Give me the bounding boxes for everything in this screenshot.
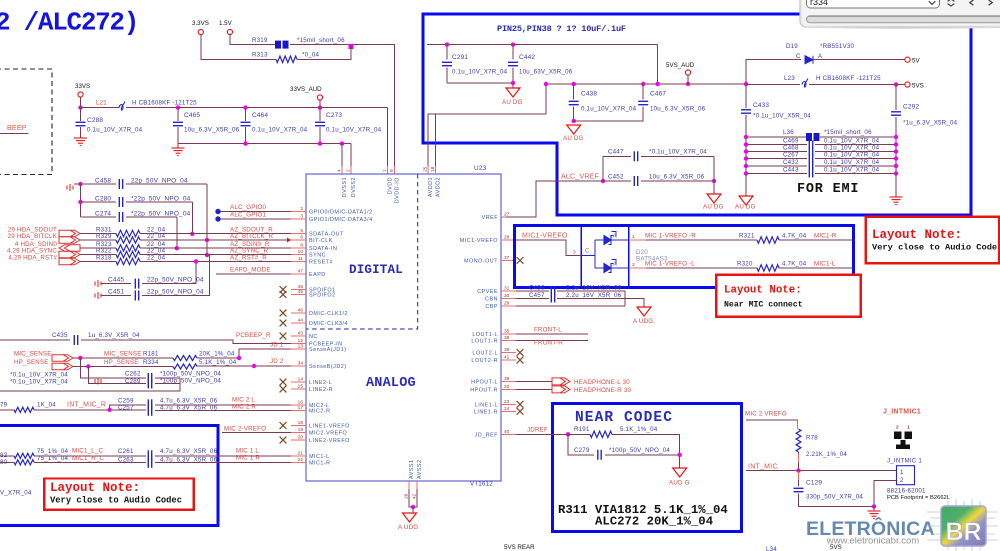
svg-text:32: 32 bbox=[504, 384, 510, 390]
find bar search input r334 bbox=[807, 0, 940, 8]
svg-text:L36: L36 bbox=[783, 129, 794, 136]
svg-text:AVSS2: AVSS2 bbox=[417, 460, 423, 479]
svg-text:C262: C262 bbox=[125, 371, 141, 378]
svg-text:1: 1 bbox=[382, 169, 388, 172]
svg-text:37: 37 bbox=[504, 255, 510, 261]
svg-text:*0.1u_10V_X7R_04: *0.1u_10V_X7R_04 bbox=[10, 372, 68, 379]
no-connect X pin 46 bbox=[280, 310, 287, 317]
junction a2 bbox=[205, 253, 209, 257]
wire R331 to codec bbox=[140, 233, 291, 235]
svg-text:MIC1-R: MIC1-R bbox=[814, 233, 837, 240]
svg-text:3: 3 bbox=[300, 214, 303, 220]
wire C467 to gnd bbox=[574, 107, 644, 122]
svg-text:3: 3 bbox=[573, 250, 576, 256]
svg-text:NEAR CODEC: NEAR CODEC bbox=[575, 410, 673, 426]
svg-text:Near MIC connect: Near MIC connect bbox=[724, 301, 803, 310]
wire 5VS_AUD stub bbox=[687, 75, 689, 84]
svg-text:U23: U23 bbox=[474, 165, 487, 172]
junction 5VS bus bbox=[894, 82, 898, 86]
svg-text:HEADPHONE-L 30: HEADPHONE-L 30 bbox=[574, 379, 630, 386]
wire EAPD_MODE bbox=[216, 273, 291, 275]
svg-text:C458: C458 bbox=[95, 178, 111, 185]
power terminal 33VS bbox=[78, 92, 83, 97]
connector arrow HDA_SDOUT bbox=[59, 230, 80, 237]
wire 1.5V to R319 bbox=[230, 35, 275, 45]
wire to C442 bbox=[512, 45, 514, 60]
resistor R78 bbox=[796, 429, 801, 452]
svg-text:21: 21 bbox=[298, 450, 304, 456]
svg-text:40: 40 bbox=[504, 429, 510, 435]
wire to C464 bbox=[245, 108, 247, 121]
wire to A UDG bbox=[625, 299, 644, 308]
capacitor C259 bbox=[148, 399, 151, 410]
svg-text:LOUT1-R: LOUT1-R bbox=[471, 339, 498, 345]
pin stub AVDD2 bbox=[435, 166, 437, 174]
svg-text:R78: R78 bbox=[806, 435, 818, 442]
svg-text:0.1u_10V_X7R_04: 0.1u_10V_X7R_04 bbox=[824, 145, 880, 152]
capacitor C445 bbox=[135, 279, 138, 289]
junction b1 bbox=[190, 232, 194, 236]
svg-text:AU DG: AU DG bbox=[703, 204, 724, 211]
svg-text:MONO-OUT: MONO-OUT bbox=[464, 258, 498, 264]
capacitor C435 bbox=[74, 335, 77, 345]
svg-text:36: 36 bbox=[504, 335, 510, 341]
svg-text:75_1%_04: 75_1%_04 bbox=[37, 448, 69, 455]
svg-text:C129: C129 bbox=[806, 480, 822, 487]
pin 32 HPOUT-R bbox=[501, 388, 516, 390]
wire R329 to codec bbox=[140, 239, 291, 241]
svg-text:SenseA(JD1): SenseA(JD1) bbox=[309, 347, 347, 353]
ground AU DG (C438) bbox=[567, 125, 581, 134]
svg-text:C435: C435 bbox=[52, 332, 68, 339]
wire AVSS to ground bbox=[412, 507, 414, 513]
svg-text:MIC 1-VREFO -L: MIC 1-VREFO -L bbox=[645, 261, 695, 268]
svg-text:5V: 5V bbox=[912, 58, 920, 65]
svg-text:MIC 1-VREFO -R: MIC 1-VREFO -R bbox=[645, 233, 696, 240]
svg-text:V_X7R_04: V_X7R_04 bbox=[0, 490, 32, 497]
resistor R320 bbox=[757, 265, 779, 271]
wire D20 common bbox=[581, 254, 595, 256]
wire MIC1-VREFO-L bbox=[646, 267, 757, 269]
svg-text:C445: C445 bbox=[108, 277, 124, 284]
svg-text:AZ_SYNC_R: AZ_SYNC_R bbox=[230, 247, 269, 254]
svg-text:AVSS1: AVSS1 bbox=[409, 460, 415, 479]
wire INT_MIC left bbox=[0, 409, 14, 411]
junction C279 bbox=[678, 453, 682, 457]
svg-text:1: 1 bbox=[900, 469, 904, 476]
svg-text:8: 8 bbox=[300, 243, 303, 249]
svg-text:*0.1u_10V_X5R_04: *0.1u_10V_X5R_04 bbox=[753, 113, 811, 120]
svg-text:C279: C279 bbox=[574, 447, 590, 454]
svg-text:30: 30 bbox=[504, 293, 510, 299]
svg-text:0.1u_10V_X7R_04: 0.1u_10V_X7R_04 bbox=[581, 106, 637, 113]
no-connect X pin 44 bbox=[280, 320, 287, 327]
junction SenseA bbox=[237, 356, 241, 360]
svg-text:FRONT-L: FRONT-L bbox=[534, 327, 562, 334]
wire HP_SENSE bbox=[73, 366, 173, 368]
svg-text:*22p_50V_NPO_04: *22p_50V_NPO_04 bbox=[131, 196, 191, 203]
svg-text:22: 22 bbox=[298, 457, 304, 463]
svg-text:10u_6.3V_X5R_06: 10u_6.3V_X5R_06 bbox=[184, 127, 240, 134]
svg-text:SDATA-OUT: SDATA-OUT bbox=[309, 232, 344, 238]
svg-text:AUD G: AUD G bbox=[669, 480, 690, 487]
diode D20 upper bbox=[595, 235, 629, 245]
wire C456 right bbox=[557, 290, 625, 292]
svg-text:AU DG: AU DG bbox=[563, 135, 584, 142]
capacitor C274 bbox=[119, 212, 122, 222]
svg-text:DVSS1: DVSS1 bbox=[342, 177, 348, 197]
power terminal 3.3VS bbox=[198, 29, 203, 34]
svg-text:SPDIFO2: SPDIFO2 bbox=[309, 293, 336, 299]
svg-text:ALC272 20K_1%_04: ALC272 20K_1%_04 bbox=[595, 515, 714, 529]
wire 33VS down bbox=[80, 97, 82, 108]
wire C279 right bbox=[605, 454, 680, 456]
power terminal 5VS_AUD bbox=[685, 70, 690, 75]
wire DVSS ground rail bbox=[178, 143, 351, 145]
svg-text:JD_REF: JD_REF bbox=[475, 432, 499, 438]
layout note box middle bbox=[716, 275, 860, 317]
connector arrow HEADPHONE-R bbox=[516, 388, 552, 390]
svg-text:A: A bbox=[818, 53, 823, 60]
highlight box NEAR CODEC bbox=[552, 404, 741, 532]
junction C467 bbox=[641, 82, 645, 86]
pin 23 LINE1-L bbox=[501, 403, 516, 405]
connector J_INTMIC1 body bbox=[897, 466, 915, 485]
svg-text:GPIO1/DMIC-DATA3/4: GPIO1/DMIC-DATA3/4 bbox=[309, 217, 373, 223]
power terminal 1.5V bbox=[227, 29, 232, 34]
dashed box BEEP area bbox=[0, 69, 52, 175]
svg-text:*100p_50V_NPO_04: *100p_50V_NPO_04 bbox=[160, 371, 221, 378]
resistor R380 bbox=[14, 460, 34, 465]
region border (thick blue staircase box) bbox=[423, 14, 971, 215]
wire to C129 bbox=[798, 471, 800, 487]
svg-text:HP_SENSE: HP_SENSE bbox=[14, 359, 49, 366]
capacitor C432 row bbox=[746, 165, 807, 167]
svg-text:MIC1-R: MIC1-R bbox=[309, 460, 331, 466]
svg-text:5VS: 5VS bbox=[830, 544, 842, 551]
svg-text:*15mil_short_06: *15mil_short_06 bbox=[824, 129, 872, 136]
svg-text:LINE1-VREFO: LINE1-VREFO bbox=[309, 424, 350, 430]
wire C458 right bbox=[126, 183, 207, 185]
pin stub D20 2 bbox=[629, 267, 646, 269]
pin 43 NC bbox=[291, 335, 306, 337]
svg-text:R181: R181 bbox=[143, 351, 159, 358]
wire D20 join bbox=[594, 240, 596, 268]
junction C438 bbox=[572, 82, 576, 86]
no-connect X pin 41 bbox=[517, 357, 524, 364]
svg-text:MIC_SENSE: MIC_SENSE bbox=[104, 351, 142, 358]
svg-text:LINE2-L: LINE2-L bbox=[309, 380, 332, 386]
wire right bus to ground bbox=[895, 174, 897, 198]
svg-text:VREF: VREF bbox=[482, 215, 499, 221]
junction J_INTMIC gnd bbox=[872, 504, 876, 508]
svg-text:r334: r334 bbox=[810, 0, 828, 7]
svg-text:0.1u_10V_X7R_04: 0.1u_10V_X7R_04 bbox=[326, 127, 382, 134]
wire gnd stub bbox=[873, 507, 875, 512]
junction EMI left bus top bbox=[744, 82, 748, 86]
wire C291 down bbox=[446, 68, 448, 84]
power terminal 5VS bbox=[905, 82, 910, 87]
pin stub AVSS1 bbox=[408, 481, 410, 489]
junction AVDD tap bbox=[544, 82, 548, 86]
wire MIC1-VREFO-R bbox=[646, 239, 757, 241]
capacitor C263 bbox=[148, 457, 151, 468]
wire to C467 bbox=[642, 84, 644, 100]
pin 24 LINE1-R bbox=[501, 410, 516, 412]
svg-text:PCBEEP_R: PCBEEP_R bbox=[236, 332, 271, 339]
capacitor C447 bbox=[634, 151, 637, 161]
svg-text:L34: L34 bbox=[766, 546, 777, 551]
junction a1 bbox=[205, 238, 209, 242]
svg-text:R334: R334 bbox=[143, 359, 159, 366]
wire PCBEEP_R bbox=[81, 340, 291, 344]
pin 48 SPDIFO1 bbox=[291, 289, 306, 291]
wire C447/C452 join bbox=[713, 156, 715, 181]
junction 5VS_AUD bbox=[686, 82, 690, 86]
wire to C438 bbox=[573, 84, 575, 100]
ferrite bead L36 row bbox=[746, 136, 806, 138]
svg-text:RESET#: RESET# bbox=[309, 260, 333, 266]
svg-text:MIC 2 L: MIC 2 L bbox=[232, 397, 255, 404]
capacitor C443 row bbox=[746, 173, 807, 175]
wire R331 row bbox=[80, 233, 116, 235]
svg-text:12: 12 bbox=[298, 338, 304, 344]
svg-text:LINE1-R: LINE1-R bbox=[474, 409, 498, 415]
wire 33VS to L21 bbox=[81, 107, 120, 109]
wire to C273 bbox=[319, 108, 321, 121]
svg-text:AU DG: AU DG bbox=[502, 99, 523, 106]
pin 8 SDATA-IN bbox=[291, 247, 306, 249]
wire MIC2-VREFO to pin bbox=[262, 431, 291, 433]
wire INT_MIC_R bbox=[34, 409, 146, 411]
svg-text:47: 47 bbox=[298, 269, 304, 275]
svg-text:29 HDA_BITCLK: 29 HDA_BITCLK bbox=[8, 233, 58, 240]
junction MIC_SENSE bbox=[78, 356, 82, 360]
wire MIC2 VREFO label bbox=[746, 419, 798, 421]
svg-text:*100p_50V_NPO_04: *100p_50V_NPO_04 bbox=[609, 447, 670, 454]
no-connect X pin 39 bbox=[517, 349, 524, 356]
pin stub DVDD bbox=[387, 166, 389, 174]
wire C452 right bbox=[641, 180, 714, 182]
svg-text:C292: C292 bbox=[903, 104, 919, 111]
svg-text:0.1u_10V_X7R_04: 0.1u_10V_X7R_04 bbox=[824, 138, 880, 145]
red lead C129 bbox=[798, 472, 800, 481]
resistor R382 bbox=[14, 453, 34, 458]
svg-text:L21: L21 bbox=[96, 100, 107, 107]
svg-text:DVDD: DVDD bbox=[388, 177, 394, 194]
ferrite bead R319 bbox=[275, 41, 289, 49]
ac symbol near C451 bbox=[95, 292, 101, 299]
svg-text:A: A bbox=[613, 233, 618, 240]
svg-text:4.7K_04: 4.7K_04 bbox=[782, 261, 807, 268]
svg-text:*0_04: *0_04 bbox=[302, 52, 320, 59]
wire 33VS_AUD rail bbox=[126, 107, 388, 109]
svg-text:AZ_RST#_R: AZ_RST#_R bbox=[230, 254, 267, 261]
svg-text:MIC 1 L: MIC 1 L bbox=[236, 448, 259, 455]
wire MIC_SENSE bbox=[73, 357, 173, 359]
wire to AU DG bbox=[713, 181, 715, 194]
svg-text:C456: C456 bbox=[529, 285, 545, 292]
svg-text:C432: C432 bbox=[783, 159, 799, 166]
junction 33VS bbox=[78, 105, 82, 109]
wire top rail down bbox=[657, 45, 659, 84]
svg-text:4.7u_6.3V_X5R_06: 4.7u_6.3V_X5R_06 bbox=[160, 398, 218, 405]
wire CBN bbox=[516, 298, 549, 300]
svg-text:C452: C452 bbox=[608, 174, 624, 181]
svg-text:INT_MIC: INT_MIC bbox=[748, 463, 778, 470]
svg-text:C274: C274 bbox=[95, 211, 111, 218]
svg-text:11: 11 bbox=[298, 256, 303, 262]
wire MIC1-L to pin bbox=[155, 455, 291, 457]
wire MIC1_R left bbox=[0, 461, 14, 463]
svg-text:LOUT2-L: LOUT2-L bbox=[472, 351, 498, 357]
wire L36 right bbox=[820, 136, 896, 138]
svg-text:330p_50V_X7R_04: 330p_50V_X7R_04 bbox=[806, 494, 863, 501]
wire MIC1_R_C bbox=[34, 461, 146, 463]
capacitor C257 bbox=[148, 405, 151, 416]
pin 28 MIC1-VREFO bbox=[501, 239, 516, 241]
junction C452 bbox=[712, 179, 716, 183]
wire C438 down bbox=[573, 107, 575, 122]
capacitor C468 row bbox=[746, 151, 807, 153]
no-connect X pin 24 bbox=[517, 408, 524, 415]
wire to MIC1-R bbox=[779, 239, 853, 241]
ground earth (J_INTMIC) bbox=[868, 511, 881, 519]
wire to 5VS terminal bbox=[896, 84, 905, 86]
blue dot ALC_GPIO1 bbox=[215, 216, 220, 221]
no-connect X pin 23 bbox=[517, 401, 524, 408]
svg-text:20K_1%_04: 20K_1%_04 bbox=[199, 351, 235, 358]
svg-text:DMIC-CLK1/2: DMIC-CLK1/2 bbox=[309, 311, 348, 317]
svg-text:2: 2 bbox=[300, 206, 303, 212]
pin 47 EAPD bbox=[291, 273, 306, 275]
pin stub AVDD1 bbox=[427, 166, 429, 174]
pin stub D20 1 bbox=[629, 239, 646, 241]
wire right bus upper bbox=[895, 85, 897, 111]
capacitor C457 bbox=[551, 295, 554, 303]
svg-text:FRONT-R: FRONT-R bbox=[534, 340, 563, 347]
svg-text:R191: R191 bbox=[574, 426, 590, 433]
logo BR chip icon bbox=[927, 499, 998, 551]
svg-text:SDATA-IN: SDATA-IN bbox=[309, 246, 337, 252]
svg-text:2 /ALC272): 2 /ALC272) bbox=[0, 8, 138, 38]
pin 29 CBP bbox=[501, 305, 516, 307]
wire 5VS_AUD to D19 bbox=[746, 60, 801, 84]
junction C458 bbox=[78, 182, 82, 186]
wire DVDD-IO bbox=[394, 45, 396, 166]
svg-text:DVDD-IO: DVDD-IO bbox=[395, 177, 401, 203]
svg-text:0.1u_10V_X7R_04: 0.1u_10V_X7R_04 bbox=[87, 127, 143, 134]
wire R78 down bbox=[798, 452, 800, 471]
svg-text:C438: C438 bbox=[581, 91, 597, 98]
svg-text:5VS_AUD: 5VS_AUD bbox=[666, 62, 695, 69]
svg-text:44: 44 bbox=[298, 318, 304, 324]
pin 35 LOUT1-L bbox=[501, 333, 516, 335]
wire caps join bbox=[624, 291, 626, 306]
junction C438 gnd bbox=[572, 119, 576, 123]
svg-text:14: 14 bbox=[298, 377, 304, 383]
wire R319 to DVDD net bbox=[290, 45, 395, 107]
pin 31 CPVEE bbox=[501, 290, 516, 292]
wire left bus to ground bbox=[745, 174, 747, 197]
svg-text:2.21K_1%_04: 2.21K_1%_04 bbox=[806, 451, 847, 458]
junction AVSS bbox=[411, 505, 415, 509]
svg-text:Layout Note:: Layout Note: bbox=[872, 228, 962, 242]
wire C435 left bbox=[0, 339, 70, 341]
svg-text:16: 16 bbox=[298, 399, 304, 405]
wire sense caps return bbox=[0, 378, 180, 391]
svg-text:VT1612: VT1612 bbox=[470, 481, 493, 488]
pin 3 GPIO1/DMIC-DATA3/4 bbox=[291, 218, 306, 220]
wire to J_INTMIC pin2 bbox=[874, 481, 897, 507]
pin stub DVDD-IO bbox=[394, 166, 396, 174]
svg-text:41: 41 bbox=[504, 355, 510, 361]
connector arrow HDA_BITCLK bbox=[59, 237, 80, 244]
svg-text:MIC 2-VREFO: MIC 2-VREFO bbox=[224, 426, 266, 433]
svg-text:1K_04: 1K_04 bbox=[37, 402, 56, 409]
wire C457 right bbox=[557, 298, 625, 300]
svg-text:C: C bbox=[796, 53, 801, 60]
svg-text:79: 79 bbox=[0, 402, 8, 409]
wire ALC_GPIO0 bbox=[220, 211, 291, 213]
wire 5VS_AUD rail bbox=[546, 83, 746, 85]
pin 38 HPOUT-L bbox=[501, 380, 516, 382]
wire 33VS_AUD stub bbox=[319, 100, 321, 108]
pin 6 BIT-CLK bbox=[291, 239, 306, 241]
svg-text:ALC_GPIO0: ALC_GPIO0 bbox=[230, 204, 267, 211]
wire to SenseB bbox=[197, 365, 291, 367]
svg-text:ALC_VREF: ALC_VREF bbox=[561, 174, 599, 181]
svg-text:5.1K_1%_04: 5.1K_1%_04 bbox=[199, 359, 237, 366]
highlight box MIC1-VREFO bbox=[515, 225, 854, 287]
pin 40 JD_REF bbox=[501, 433, 516, 435]
svg-text:GPIO0/DMIC-DATA1/2: GPIO0/DMIC-DATA1/2 bbox=[309, 210, 373, 216]
wire vert b bbox=[191, 202, 193, 234]
capacitor C458 bbox=[119, 179, 122, 189]
wire MIC2-VREFO label bbox=[222, 431, 262, 433]
power terminal 5V bbox=[905, 57, 910, 62]
junction L36 right bbox=[894, 135, 898, 139]
svg-text:C442: C442 bbox=[519, 54, 535, 61]
wire D19 to 5V bbox=[813, 59, 905, 61]
pin 20 LINE2-VREFO bbox=[291, 439, 306, 441]
svg-text:5VS: 5VS bbox=[912, 83, 924, 90]
capacitor C451 bbox=[135, 291, 138, 301]
svg-text:AVDD2: AVDD2 bbox=[436, 177, 442, 197]
svg-text:BIT-CLK: BIT-CLK bbox=[309, 238, 333, 244]
svg-text:H CB1608KF -121T25: H CB1608KF -121T25 bbox=[132, 100, 197, 107]
svg-text:5.1K_1%_04: 5.1K_1%_04 bbox=[620, 426, 658, 433]
pin 34 SenseB(JD2) bbox=[291, 365, 306, 367]
wire R323 to codec bbox=[140, 247, 291, 249]
svg-text:2: 2 bbox=[632, 262, 635, 268]
capacitor C280 bbox=[119, 197, 122, 207]
ac symbol near C458 bbox=[67, 184, 73, 191]
find bar match-all button icon bbox=[948, 0, 955, 6]
svg-text:MIC1-L: MIC1-L bbox=[309, 454, 330, 460]
svg-text:*22p_50V_NPO_04: *22p_50V_NPO_04 bbox=[131, 211, 191, 218]
svg-text:22p_50V_NPO_04: 22p_50V_NPO_04 bbox=[131, 178, 188, 185]
svg-text:C: C bbox=[585, 248, 590, 255]
wire AVDD top rail bbox=[427, 44, 658, 46]
svg-text:Very close to Audio Codec: Very close to Audio Codec bbox=[50, 496, 182, 506]
wire MIC1_L_C bbox=[34, 455, 146, 457]
diode D19 bbox=[805, 56, 813, 64]
svg-text:HEADPHONE-R 30: HEADPHONE-R 30 bbox=[574, 387, 631, 394]
svg-text:JD 2: JD 2 bbox=[270, 358, 284, 365]
pin 5 SDATA-OUT bbox=[291, 233, 306, 235]
pin 46 DMIC-CLK1/2 bbox=[291, 312, 306, 314]
